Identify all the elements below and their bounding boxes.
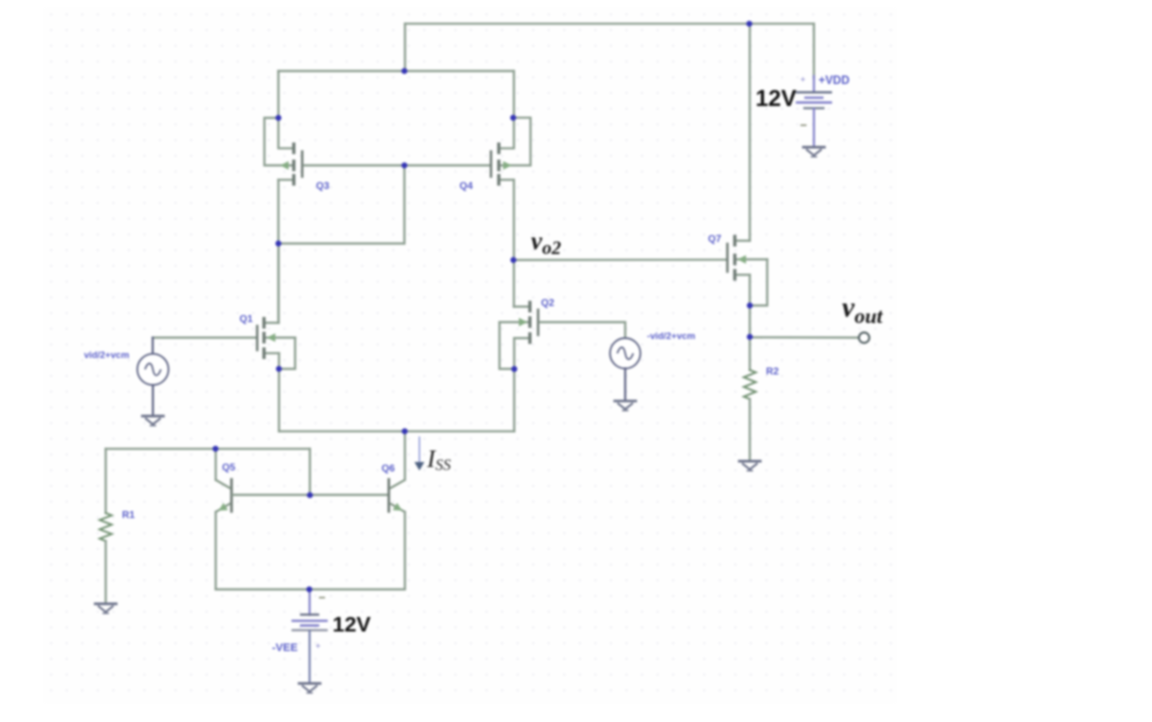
svg-text:Q4: Q4	[460, 181, 474, 192]
svg-text:vid/2+vcm: vid/2+vcm	[84, 350, 129, 360]
svg-text:R2: R2	[766, 367, 779, 378]
svg-text:Q6: Q6	[382, 464, 396, 475]
svg-text:-VEE: -VEE	[272, 642, 298, 654]
svg-text:+VDD: +VDD	[819, 75, 850, 87]
svg-text:Q3: Q3	[316, 181, 330, 192]
svg-text:12V: 12V	[756, 85, 798, 111]
svg-text:Q1: Q1	[240, 314, 254, 325]
svg-text:Q5: Q5	[222, 462, 236, 473]
svg-text:-vid/2+vcm: -vid/2+vcm	[647, 331, 695, 341]
svg-text:R1: R1	[122, 510, 135, 521]
svg-text:+: +	[315, 641, 320, 651]
svg-text:Q7: Q7	[708, 234, 722, 245]
svg-text:+: +	[800, 74, 805, 84]
svg-text:Q2: Q2	[541, 298, 555, 309]
svg-text:12V: 12V	[333, 613, 372, 637]
